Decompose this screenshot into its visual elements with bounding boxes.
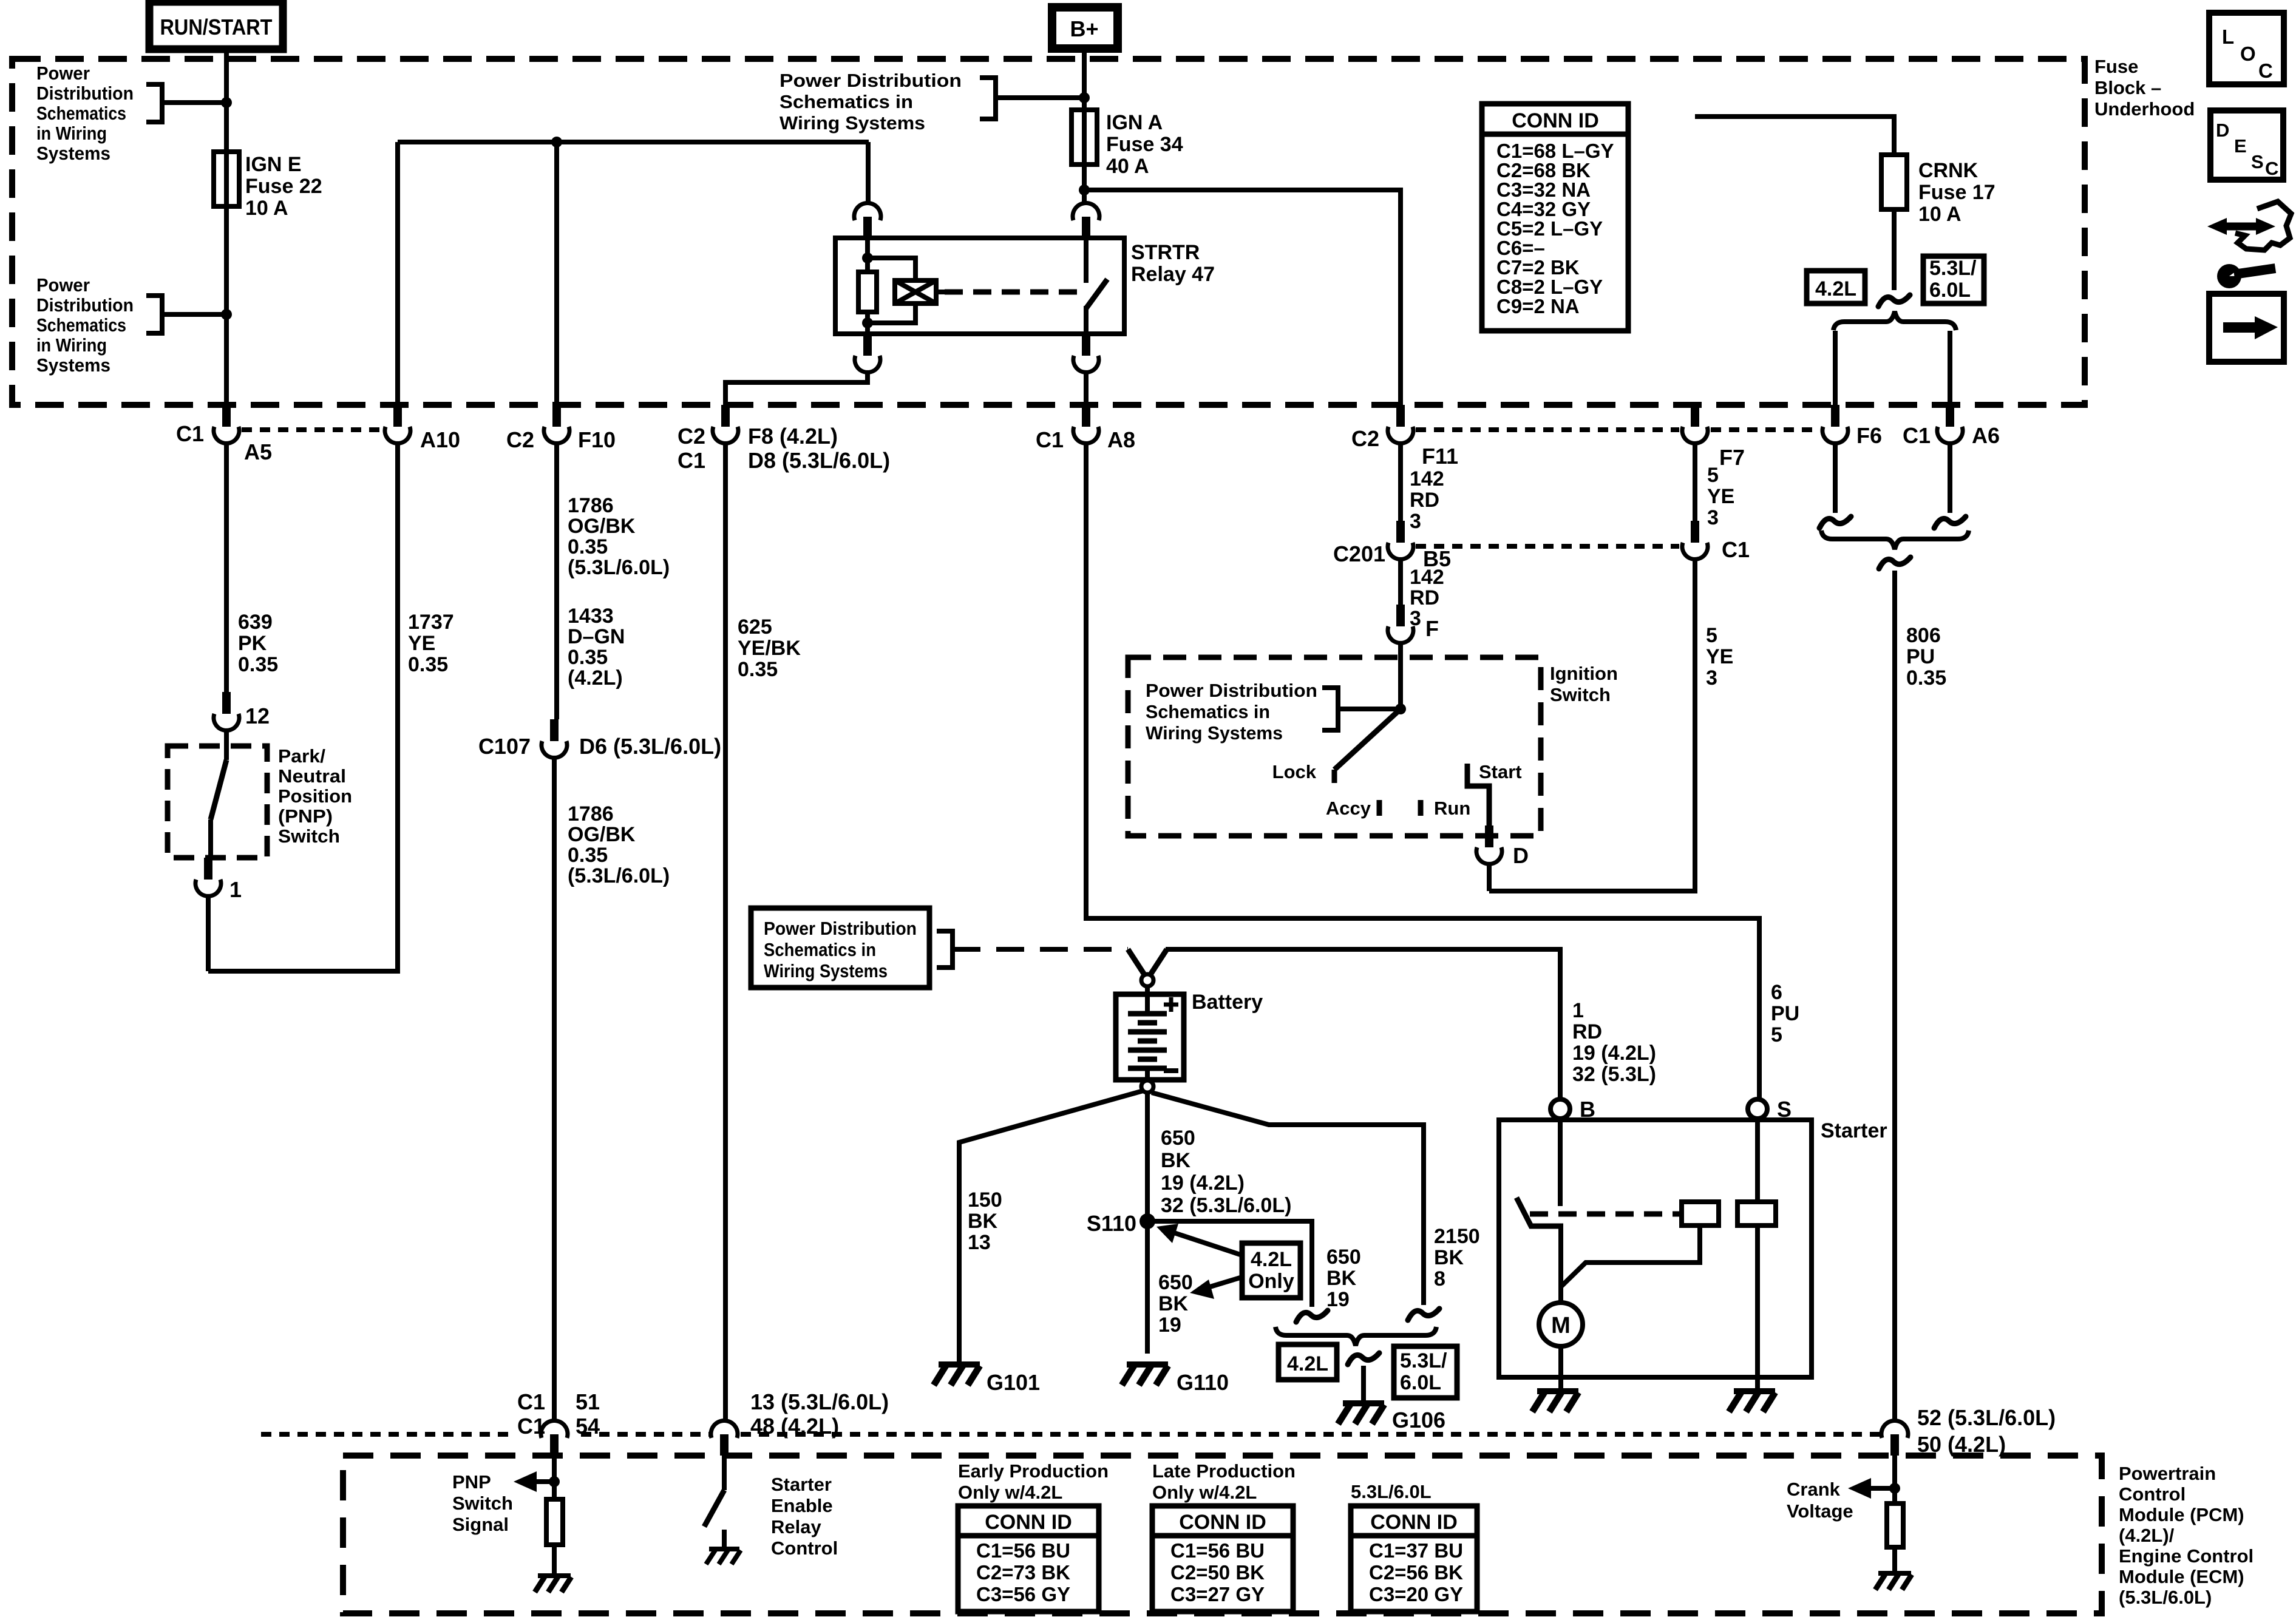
svg-text:Late Production: Late Production (1152, 1460, 1296, 1482)
ground crank internal (1878, 1571, 1911, 1576)
resistor relay internal (858, 272, 877, 312)
coil relay X stroke1 (895, 280, 936, 303)
svg-text:Systems: Systems (36, 143, 110, 164)
svg-text:Starter: Starter (771, 1474, 832, 1495)
fuse IGN A Fuse 34 (1072, 110, 1097, 164)
svg-text:51: 51 (576, 1389, 600, 1414)
ground G110 (1127, 1361, 1168, 1368)
svg-text:C2=50 BK: C2=50 BK (1170, 1561, 1265, 1584)
svg-text:639: 639 (238, 611, 273, 634)
svg-text:RD: RD (1572, 1020, 1602, 1043)
svg-text:C9=2 NA: C9=2 NA (1496, 295, 1580, 317)
connector relay coil top pin (863, 217, 872, 238)
svg-text:Module (PCM): Module (PCM) (2119, 1504, 2244, 1525)
svg-text:10 A: 10 A (1918, 203, 1961, 226)
svg-text:IGN E: IGN E (245, 153, 302, 176)
wire bracket to IGN E wire (162, 100, 226, 105)
wire to F6 (1833, 331, 1838, 405)
wire solenoid loop (1561, 1225, 1700, 1287)
svg-text:A5: A5 (244, 439, 272, 464)
brace G106 merge (1275, 1327, 1436, 1346)
fuse IGN E Fuse 22 (214, 152, 239, 206)
svg-text:2150: 2150 (1434, 1225, 1480, 1248)
svg-text:1737: 1737 (408, 611, 454, 634)
resistor crank pulldown (1887, 1503, 1903, 1547)
wire F10 vertical (554, 142, 559, 405)
svg-text:C3=56 GY: C3=56 GY (976, 1583, 1070, 1605)
ground starter M (1537, 1388, 1578, 1394)
svg-text:806: 806 (1906, 624, 1941, 647)
connector A10 at fuse block (393, 405, 402, 427)
svg-text:142: 142 (1410, 566, 1444, 589)
svg-text:10 A: 10 A (245, 197, 288, 220)
wire A6 below (1948, 442, 1952, 513)
brace F6-A6 merge (1821, 531, 1969, 549)
svg-text:F8 (4.2L): F8 (4.2L) (748, 424, 838, 449)
terminal circle B (1550, 1099, 1570, 1119)
wire relay coil feed vertical (866, 142, 871, 205)
dashed link F7-F6 (1711, 427, 1819, 432)
resistor pnp pulldown (546, 1499, 563, 1545)
svg-text:Run: Run (1434, 798, 1470, 819)
dashed link C201-C1 (1416, 544, 1679, 549)
label 5.3L/6.0L box top (1923, 256, 1984, 303)
svg-text:3: 3 (1707, 506, 1719, 529)
svg-text:C2=56 BK: C2=56 BK (1369, 1561, 1463, 1584)
svg-text:BK: BK (968, 1210, 998, 1233)
pcm connector dashed line left (261, 1432, 509, 1437)
svg-text:Schematics in: Schematics in (779, 91, 913, 112)
wire 1737 YE (208, 442, 398, 971)
svg-text:Only w/4.2L: Only w/4.2L (1152, 1482, 1257, 1503)
svg-text:4.2L: 4.2L (1287, 1352, 1328, 1375)
wire C107 down to PCM (552, 758, 557, 1420)
splice squiggle 806 (1879, 557, 1911, 569)
svg-text:Control: Control (2119, 1483, 2186, 1505)
connector F6 at fuse block (1831, 405, 1839, 427)
svg-text:Wiring Systems: Wiring Systems (779, 112, 925, 134)
connector relay switch top pin (1082, 217, 1090, 238)
svg-text:Power Distribution: Power Distribution (779, 70, 962, 91)
svg-text:C1: C1 (1036, 427, 1064, 452)
svg-text:Power: Power (36, 63, 90, 84)
svg-text:PK: PK (238, 632, 267, 655)
svg-text:19: 19 (1158, 1314, 1181, 1337)
svg-text:B+: B+ (1070, 16, 1098, 41)
svg-text:52 (5.3L/6.0L): 52 (5.3L/6.0L) (1917, 1405, 2056, 1430)
connector F ignition (1396, 605, 1405, 626)
ground pnp internal (538, 1573, 571, 1578)
terminal circle S (1748, 1099, 1767, 1119)
svg-text:1: 1 (1572, 999, 1584, 1022)
wire S110 to 650 branch (1147, 1221, 1312, 1307)
wire IGN A vertical (1082, 98, 1087, 205)
connector C2-F10 at fuse block (552, 405, 561, 427)
svg-text:OG/BK: OG/BK (568, 823, 636, 846)
svg-text:5.3L/6.0L: 5.3L/6.0L (1351, 1481, 1432, 1502)
connector C201 B5 (1396, 521, 1405, 543)
wire 806 PU (1892, 571, 1897, 1420)
splice squiggle F6 (1819, 517, 1851, 528)
wire starter S through coil (1755, 1225, 1760, 1390)
svg-text:IGN A: IGN A (1106, 111, 1163, 134)
ground G106 symbol (1343, 1400, 1384, 1406)
svg-text:D: D (1513, 843, 1529, 868)
wire crank resistor to gnd (1892, 1547, 1897, 1571)
svg-text:4.2L: 4.2L (1251, 1248, 1292, 1271)
bracket battery note (937, 931, 953, 968)
wire relay coil out to F8 (725, 372, 868, 405)
connector C107 D6 (550, 719, 559, 741)
wire crank voltage inside (1892, 1456, 1897, 1503)
wire starter enable contact (722, 1530, 727, 1547)
svg-text:A8: A8 (1107, 427, 1135, 452)
svg-text:6: 6 (1771, 981, 1782, 1004)
svg-text:Voltage: Voltage (1787, 1500, 1853, 1522)
svg-text:A10: A10 (420, 427, 460, 452)
svg-text:Distribution: Distribution (36, 83, 134, 104)
wire D down (1487, 863, 1492, 891)
label 4.2L box bottom (1279, 1344, 1337, 1380)
ground G101 (939, 1361, 980, 1368)
battery minus sign (1164, 1068, 1178, 1073)
svg-text:Schematics: Schematics (36, 314, 126, 336)
svg-text:Only: Only (1248, 1270, 1294, 1293)
svg-text:Distribution: Distribution (36, 294, 134, 316)
svg-text:Crank: Crank (1787, 1479, 1841, 1500)
svg-text:Position: Position (278, 785, 352, 807)
svg-text:Schematics in: Schematics in (1146, 701, 1270, 722)
svg-text:Start: Start (1479, 761, 1522, 782)
switch ignition lever (1334, 709, 1401, 770)
svg-text:625: 625 (738, 615, 772, 639)
svg-text:(4.2L)/: (4.2L)/ (2119, 1525, 2175, 1546)
junction dot crank (1889, 1483, 1900, 1494)
connector C1 under F7 (1691, 521, 1699, 543)
svg-text:650: 650 (1158, 1271, 1193, 1294)
svg-text:STRTR: STRTR (1131, 241, 1200, 264)
power tag B+ (1052, 7, 1118, 49)
wire CRNK fuse bottom (1892, 209, 1897, 290)
svg-text:13 (5.3L/6.0L): 13 (5.3L/6.0L) (750, 1389, 889, 1414)
pcm module dashed box (343, 1456, 2102, 1613)
coil relay X stroke2 (895, 280, 936, 303)
svg-text:3: 3 (1410, 510, 1421, 533)
svg-text:Enable: Enable (771, 1495, 833, 1516)
svg-text:BK: BK (1161, 1149, 1191, 1172)
svg-text:C2: C2 (506, 427, 534, 452)
svg-text:13: 13 (968, 1231, 991, 1254)
connector C1-A8 at fuse block (1082, 405, 1090, 427)
label 4.2L Only box (1242, 1243, 1300, 1298)
wire relay switch out to A8 (1084, 372, 1089, 405)
svg-text:Relay 47: Relay 47 (1131, 263, 1215, 286)
wire A8 down and right to S (1086, 442, 1759, 1099)
svg-text:BK: BK (1158, 1292, 1189, 1315)
svg-text:0.35: 0.35 (568, 535, 608, 558)
svg-text:C1: C1 (517, 1389, 545, 1414)
svg-text:5: 5 (1707, 464, 1719, 487)
svg-text:Module (ECM): Module (ECM) (2119, 1566, 2244, 1587)
svg-text:Fuse: Fuse (2094, 56, 2138, 77)
svg-text:C: C (2265, 158, 2278, 179)
connector C2-F11 at fuse block (1396, 405, 1405, 427)
svg-text:Wiring Systems: Wiring Systems (764, 960, 888, 981)
svg-text:Switch: Switch (452, 1493, 513, 1514)
svg-text:C1: C1 (1722, 537, 1750, 562)
table CONN ID fuse block (1482, 104, 1628, 331)
svg-text:6.0L: 6.0L (1929, 279, 1971, 302)
svg-text:PNP: PNP (452, 1471, 491, 1493)
bracket ignition note (1322, 688, 1338, 730)
svg-text:G110: G110 (1177, 1370, 1229, 1395)
wire F7 feed top (1695, 117, 1894, 155)
svg-text:D–GN: D–GN (568, 625, 625, 648)
table CONN ID 5.3L (1351, 1506, 1477, 1612)
wire relay coil branch bottom (868, 303, 915, 323)
svg-text:G101: G101 (987, 1370, 1040, 1395)
svg-text:Engine Control: Engine Control (2119, 1545, 2254, 1567)
pnp switch dashed box (168, 746, 267, 858)
table CONN ID late (1152, 1506, 1293, 1612)
svg-text:8: 8 (1434, 1267, 1445, 1290)
wire RUN/START to fuse block (224, 47, 229, 152)
svg-text:Fuse 17: Fuse 17 (1918, 181, 1995, 204)
junction dot IGN A top (1079, 92, 1090, 103)
wire F6 below (1833, 442, 1838, 513)
wire F10 lower (554, 442, 559, 719)
svg-text:E: E (2234, 135, 2247, 157)
svg-text:142: 142 (1410, 467, 1444, 490)
wire PNP out (208, 819, 213, 858)
connector F7 at fuse block (1691, 405, 1699, 427)
connector PNP pin 12 (222, 692, 231, 714)
svg-text:CONN ID: CONN ID (1179, 1511, 1266, 1534)
power tag RUN/START (149, 2, 283, 49)
wire battery to 2150 branch (1152, 1093, 1424, 1305)
switch relay blade (1086, 279, 1107, 308)
svg-text:F: F (1425, 616, 1439, 641)
svg-text:Signal: Signal (452, 1514, 509, 1535)
svg-text:C1: C1 (678, 448, 705, 473)
bracket top-middle note (980, 78, 996, 119)
svg-text:650: 650 (1326, 1246, 1361, 1269)
svg-text:Lock: Lock (1272, 761, 1317, 782)
svg-text:D8 (5.3L/6.0L): D8 (5.3L/6.0L) (748, 448, 890, 473)
battery plates (1128, 1011, 1167, 1017)
dashed actuator starter (1530, 1212, 1682, 1217)
svg-text:(5.3L/6.0L): (5.3L/6.0L) (568, 556, 670, 579)
fuse block - underhood dashed box (12, 59, 2085, 405)
wire M to ground (1558, 1346, 1563, 1390)
arrow crank voltage (1869, 1486, 1895, 1491)
label 5.3L/6.0L box bottom (1394, 1346, 1457, 1398)
wire relay switch fixed contact (1084, 238, 1089, 283)
svg-text:5: 5 (1771, 1023, 1782, 1046)
wire starter enable inside (722, 1456, 727, 1490)
battery box (1116, 994, 1184, 1080)
wire battery pos diag to B wire (1151, 949, 1167, 974)
svg-text:YE/BK: YE/BK (738, 637, 801, 660)
svg-text:F10: F10 (578, 427, 616, 452)
svg-text:YE: YE (408, 632, 435, 655)
svg-text:0.35: 0.35 (408, 653, 448, 676)
ground starter S (1734, 1388, 1775, 1394)
svg-text:32 (5.3L): 32 (5.3L) (1572, 1063, 1656, 1086)
wire IGN A to F11 (1084, 190, 1401, 405)
svg-text:150: 150 (968, 1188, 1002, 1212)
icon wrench (2217, 264, 2241, 288)
wire 639 PK (224, 442, 229, 692)
svg-text:G106: G106 (1392, 1408, 1445, 1432)
svg-text:F6: F6 (1856, 423, 1882, 448)
svg-text:650: 650 (1161, 1127, 1195, 1150)
svg-text:RUN/START: RUN/START (160, 15, 273, 39)
svg-text:1433: 1433 (568, 605, 614, 628)
wire relay coil branch (868, 258, 915, 280)
splice squiggle 650 (1296, 1310, 1328, 1322)
contact Lock tick (1332, 770, 1337, 783)
svg-text:in Wiring: in Wiring (36, 334, 107, 356)
svg-text:YE: YE (1706, 645, 1733, 668)
connector relay coil bottom pin (863, 334, 872, 356)
junction S110 (1140, 1213, 1155, 1229)
svg-text:Switch: Switch (1550, 684, 1611, 705)
svg-text:(5.3L/6.0L): (5.3L/6.0L) (568, 864, 670, 887)
svg-text:50 (4.2L): 50 (4.2L) (1917, 1432, 2006, 1457)
svg-text:Battery: Battery (1192, 991, 1263, 1014)
junction dot IGN A bottom (1079, 185, 1090, 195)
svg-text:Powertrain: Powertrain (2119, 1463, 2216, 1484)
relay STRTR Relay 47 box (835, 238, 1124, 334)
svg-text:Systems: Systems (36, 354, 110, 376)
junction dot relay coil top (862, 253, 873, 263)
svg-text:C1: C1 (517, 1414, 545, 1439)
svg-text:3: 3 (1410, 607, 1421, 630)
svg-text:19 (4.2L): 19 (4.2L) (1572, 1042, 1656, 1065)
svg-text:CONN ID: CONN ID (1370, 1511, 1458, 1534)
wire A10-F10-relay horizontal (398, 140, 869, 144)
svg-text:54: 54 (576, 1414, 600, 1439)
svg-text:C2: C2 (1351, 426, 1379, 451)
wire F7 to C1 (1693, 442, 1697, 521)
ignition switch dashed box (1128, 657, 1541, 836)
splice squiggle A6 (1934, 517, 1966, 528)
dashed actuator relay (945, 290, 1081, 295)
svg-text:0.35: 0.35 (568, 646, 608, 669)
wire battery to G101 branch (959, 1091, 1143, 1363)
svg-text:0.35: 0.35 (1906, 666, 1946, 690)
ground starter enable (709, 1547, 739, 1551)
junction dot F10 (551, 137, 562, 147)
svg-text:Neutral: Neutral (278, 765, 346, 787)
pcm connector dashed line mid (581, 1432, 709, 1437)
connector 13 48 starter enable (720, 1434, 729, 1456)
svg-text:OG/BK: OG/BK (568, 515, 636, 538)
svg-text:5.3L/: 5.3L/ (1400, 1349, 1447, 1372)
svg-text:CONN ID: CONN ID (1512, 109, 1599, 132)
svg-text:A6: A6 (1972, 423, 2000, 448)
junction dot pnp signal (549, 1476, 560, 1487)
svg-text:C3=27 GY: C3=27 GY (1170, 1583, 1265, 1605)
svg-text:B: B (1580, 1097, 1595, 1122)
svg-text:PU: PU (1906, 645, 1935, 668)
contact Run tick (1418, 800, 1424, 816)
wire starter B inside (1558, 1119, 1563, 1206)
svg-text:6.0L: 6.0L (1400, 1371, 1441, 1394)
svg-text:Power: Power (36, 274, 90, 296)
svg-text:Control: Control (771, 1537, 838, 1559)
wire IGN E vertical (224, 103, 229, 405)
connector PNP pin 1 (204, 858, 212, 880)
svg-text:19: 19 (1326, 1288, 1350, 1311)
svg-text:Park/: Park/ (278, 745, 325, 767)
svg-text:32 (5.3L/6.0L): 32 (5.3L/6.0L) (1161, 1194, 1291, 1217)
switch battery feed blade (1128, 949, 1144, 974)
svg-text:D: D (2216, 120, 2229, 141)
wire relay switch bottom (1084, 306, 1089, 334)
wire battery to S110 (1145, 1093, 1150, 1354)
connector 52 50 crank voltage (1890, 1434, 1899, 1456)
dashed link F11-F7 (1416, 427, 1679, 432)
svg-text:4.2L: 4.2L (1815, 277, 1856, 300)
svg-text:48 (4.2L): 48 (4.2L) (750, 1414, 839, 1439)
connector D ignition (1485, 825, 1493, 847)
svg-text:C201: C201 (1333, 541, 1385, 566)
svg-text:M: M (1551, 1313, 1571, 1338)
svg-text:L: L (2222, 25, 2234, 48)
svg-text:C: C (2258, 59, 2273, 82)
svg-text:S: S (2251, 151, 2264, 172)
svg-text:(4.2L): (4.2L) (568, 666, 623, 690)
svg-text:3: 3 (1706, 666, 1717, 690)
svg-text:PU: PU (1771, 1002, 1799, 1025)
svg-text:S110: S110 (1087, 1211, 1136, 1236)
svg-text:Relay: Relay (771, 1516, 821, 1537)
junction dot relay coil bottom (862, 317, 873, 328)
svg-text:C1=56 BU: C1=56 BU (1170, 1539, 1265, 1562)
svg-text:F11: F11 (1422, 444, 1458, 469)
wire battery feed to starter B (1166, 949, 1560, 1099)
svg-text:Accy: Accy (1326, 798, 1371, 819)
svg-text:Starter: Starter (1821, 1119, 1887, 1142)
terminal circle battery positive (1141, 974, 1153, 986)
svg-text:Fuse 22: Fuse 22 (245, 175, 322, 198)
svg-text:Power Distribution: Power Distribution (1146, 680, 1317, 701)
solenoid coil box right (1737, 1202, 1776, 1225)
svg-text:C2: C2 (678, 424, 705, 449)
wire F into ignition switch (1398, 642, 1403, 713)
svg-text:5.3L/: 5.3L/ (1929, 257, 1977, 280)
wire relay resistor bottom (865, 312, 870, 334)
svg-text:12: 12 (245, 703, 270, 728)
svg-text:0.35: 0.35 (738, 658, 778, 681)
svg-text:0.35: 0.35 (238, 653, 278, 676)
connector C1 51 54 PNP signal (550, 1434, 559, 1456)
wire relay coil pin inside (865, 238, 870, 272)
junction dot IGN E upper (221, 97, 232, 108)
svg-text:F7: F7 (1719, 445, 1745, 470)
svg-text:BK: BK (1434, 1246, 1464, 1269)
svg-text:O: O (2240, 42, 2256, 65)
svg-text:RD: RD (1410, 586, 1439, 609)
table CONN ID header line (1482, 132, 1628, 137)
icon adjust hand (2235, 202, 2291, 250)
connector C1-A6 at fuse block (1946, 405, 1954, 427)
svg-text:19 (4.2L): 19 (4.2L) (1161, 1171, 1245, 1195)
svg-text:Switch: Switch (278, 825, 340, 847)
starter box (1499, 1120, 1812, 1377)
